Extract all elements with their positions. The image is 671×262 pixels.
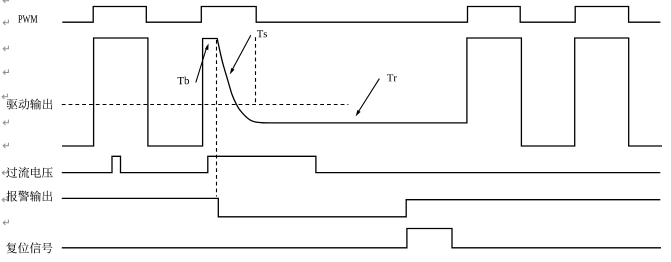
drive output waveform 驱动输出 [62, 38, 662, 146]
paragraph mark [3, 46, 8, 51]
alarm output waveform 报警输出 [62, 198, 661, 216]
label Tr [387, 74, 397, 81]
label 过流电压 [6, 167, 53, 178]
label 报警输出 [6, 191, 52, 202]
label Tb [178, 77, 190, 85]
arrow Ts head [230, 68, 235, 75]
paragraph mark [3, 143, 8, 148]
reset signal waveform 复位信号 [62, 229, 661, 248]
dashed vertical line at spike end [216, 40, 218, 197]
paragraph mark (label row) [2, 170, 7, 175]
overcurrent voltage waveform 过流电压 [62, 156, 661, 172]
label 驱动输出 [7, 99, 53, 110]
dashed threshold level line [62, 104, 349, 106]
paragraph mark [3, 69, 8, 74]
label PWM [18, 15, 37, 23]
paragraph mark [3, 220, 8, 225]
paragraph mark (label row) [2, 94, 7, 99]
arrow Tr leader line [358, 79, 380, 113]
arrow Tr head [356, 110, 361, 117]
arrow Tb leader line [196, 46, 207, 83]
dashed vertical line Ts [255, 37, 257, 104]
arrow Tb head [205, 43, 209, 50]
arrow Ts leader line [232, 35, 251, 70]
paragraph mark [3, 120, 8, 125]
paragraph mark (top, cut) [3, 0, 8, 3]
paragraph mark [3, 20, 8, 25]
label Ts [257, 30, 267, 37]
paragraph mark (label row) [2, 197, 7, 202]
label 复位信号 [6, 242, 52, 253]
PWM waveform [62, 7, 660, 23]
